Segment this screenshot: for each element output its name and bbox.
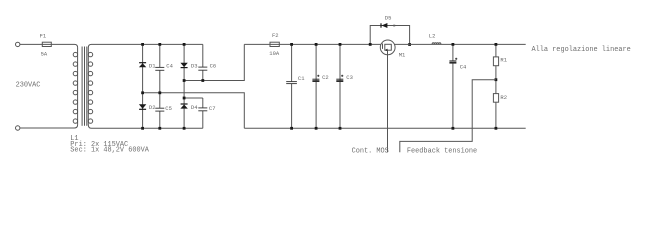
junction output rail at R1 (495, 43, 498, 46)
svg-text:C5: C5 (165, 105, 172, 112)
wire positive node D3 C6 to riser (184, 44, 244, 80)
junction positive node at D3 (183, 79, 186, 82)
junction bottom rail at C5 (158, 127, 161, 130)
mosfet M1 (380, 40, 395, 55)
svg-text:C2: C2 (322, 74, 329, 81)
wire diode column D3 D4 (183, 44, 185, 128)
inductor L2 (432, 43, 441, 45)
wire filter top rail (244, 43, 380, 45)
svg-text:D4: D4 (191, 104, 198, 111)
svg-text:L2: L2 (429, 32, 436, 39)
junction top rail at D3 (183, 43, 186, 46)
diode D2 (139, 104, 146, 109)
svg-text:R2: R2 (500, 94, 507, 101)
junction ground rail at C1 (290, 127, 293, 130)
wire capacitor column C4 output (452, 44, 454, 128)
svg-text:C4: C4 (460, 64, 467, 71)
wire D5 snubber loop (370, 26, 409, 45)
wire negative node D1 C4 to ground riser (143, 93, 245, 129)
junction top rail at C4 (158, 43, 161, 46)
svg-text:Cont. MOS: Cont. MOS (352, 147, 389, 155)
svg-text:C6: C6 (210, 63, 217, 70)
svg-text:F1: F1 (40, 32, 47, 39)
junction top rail at D5 left (369, 43, 372, 46)
svg-text:Alla regolazione lineare: Alla regolazione lineare (532, 46, 631, 54)
junction ground rail at C4 (452, 127, 455, 130)
capacitor C7 (198, 108, 207, 111)
wire filter ground rail (244, 127, 525, 129)
svg-text:C4: C4 (166, 63, 173, 70)
svg-text:Sec: 1x 48,2V 600VA: Sec: 1x 48,2V 600VA (70, 147, 149, 155)
wire output rail (394, 43, 526, 45)
wire top-left to fuse F1 and transformer primary top (20, 44, 78, 47)
svg-text:D2: D2 (149, 104, 156, 111)
capacitor C4 output polarized (449, 58, 457, 64)
diode D4 (180, 104, 187, 109)
svg-text:D1: D1 (149, 62, 156, 69)
capacitor C3 polarized (336, 75, 343, 82)
fuse F1 (42, 42, 51, 46)
svg-text:Feedback tensione: Feedback tensione (407, 147, 477, 155)
wire capacitor column C2 (315, 44, 317, 128)
wire mosfet gate down to control (387, 50, 389, 152)
wire capacitor column C6 (202, 44, 204, 80)
transformer L1 core (82, 47, 87, 126)
svg-text:5A: 5A (41, 50, 48, 57)
capacitor C5 (155, 108, 164, 111)
svg-text:F2: F2 (272, 32, 279, 39)
junction positive node at C6 (201, 79, 204, 82)
capacitor C4 (155, 67, 164, 70)
transformer L1 primary winding (73, 48, 77, 125)
junction output rail at D5 right (408, 43, 411, 46)
resistor R2 (493, 94, 498, 103)
diode D5 (381, 23, 387, 28)
junction C7 connector at D4 (183, 97, 186, 100)
wire capacitor column C4 C5 (159, 44, 161, 128)
terminal top-left input (16, 42, 20, 46)
svg-text:C3: C3 (346, 74, 353, 81)
junction feedback tap at R1 R2 (495, 78, 498, 81)
junction negative node at C4 C5 (158, 91, 161, 94)
svg-text:C7: C7 (209, 105, 216, 112)
junction ground rail at C3 (339, 127, 342, 130)
wire C7 top connector (184, 97, 203, 99)
svg-text:C1: C1 (298, 75, 305, 82)
terminal bottom-left input (16, 126, 20, 130)
svg-text:D3: D3 (191, 62, 198, 69)
wire rectifier bottom rail (92, 127, 203, 129)
wire capacitor column C7 (202, 98, 204, 128)
wire feedback from divider tap (400, 80, 496, 153)
svg-text:10A: 10A (269, 50, 280, 57)
capacitor C1 (286, 82, 297, 84)
capacitor C6 (198, 67, 207, 70)
capacitor C2 polarized (312, 75, 319, 82)
wire capacitor column C3 (339, 44, 341, 128)
junction negative node at D1 D2 (141, 91, 144, 94)
diode D1 (139, 63, 146, 68)
svg-text:M1: M1 (399, 52, 406, 59)
resistor R1 (493, 57, 498, 66)
wire capacitor column C1 (291, 44, 293, 128)
fuse F2 (270, 42, 279, 46)
junction bottom rail at D2 (141, 127, 144, 130)
diode D3 (180, 63, 187, 68)
junction top rail at D1 (141, 43, 144, 46)
junction on D5 wire (393, 25, 395, 27)
junction ground rail at R2 (495, 127, 498, 130)
junction top rail at C3 (339, 43, 342, 46)
transformer L1 secondary winding (88, 44, 92, 128)
wire diode column D1 D2 (142, 44, 144, 128)
junction top rail at C1 (290, 43, 293, 46)
wire resistor column R1 R2 (495, 44, 497, 128)
junction output rail at C4 (452, 43, 455, 46)
svg-text:230VAC: 230VAC (16, 81, 41, 89)
wire bottom-left to transformer primary bottom (20, 125, 78, 128)
junction bottom rail at D4 (183, 127, 186, 130)
junction ground rail at C2 (315, 127, 318, 130)
junction top rail at C2 (315, 43, 318, 46)
wire rectifier top rail (92, 43, 203, 45)
svg-text:R1: R1 (500, 57, 507, 64)
svg-text:D5: D5 (385, 14, 392, 21)
